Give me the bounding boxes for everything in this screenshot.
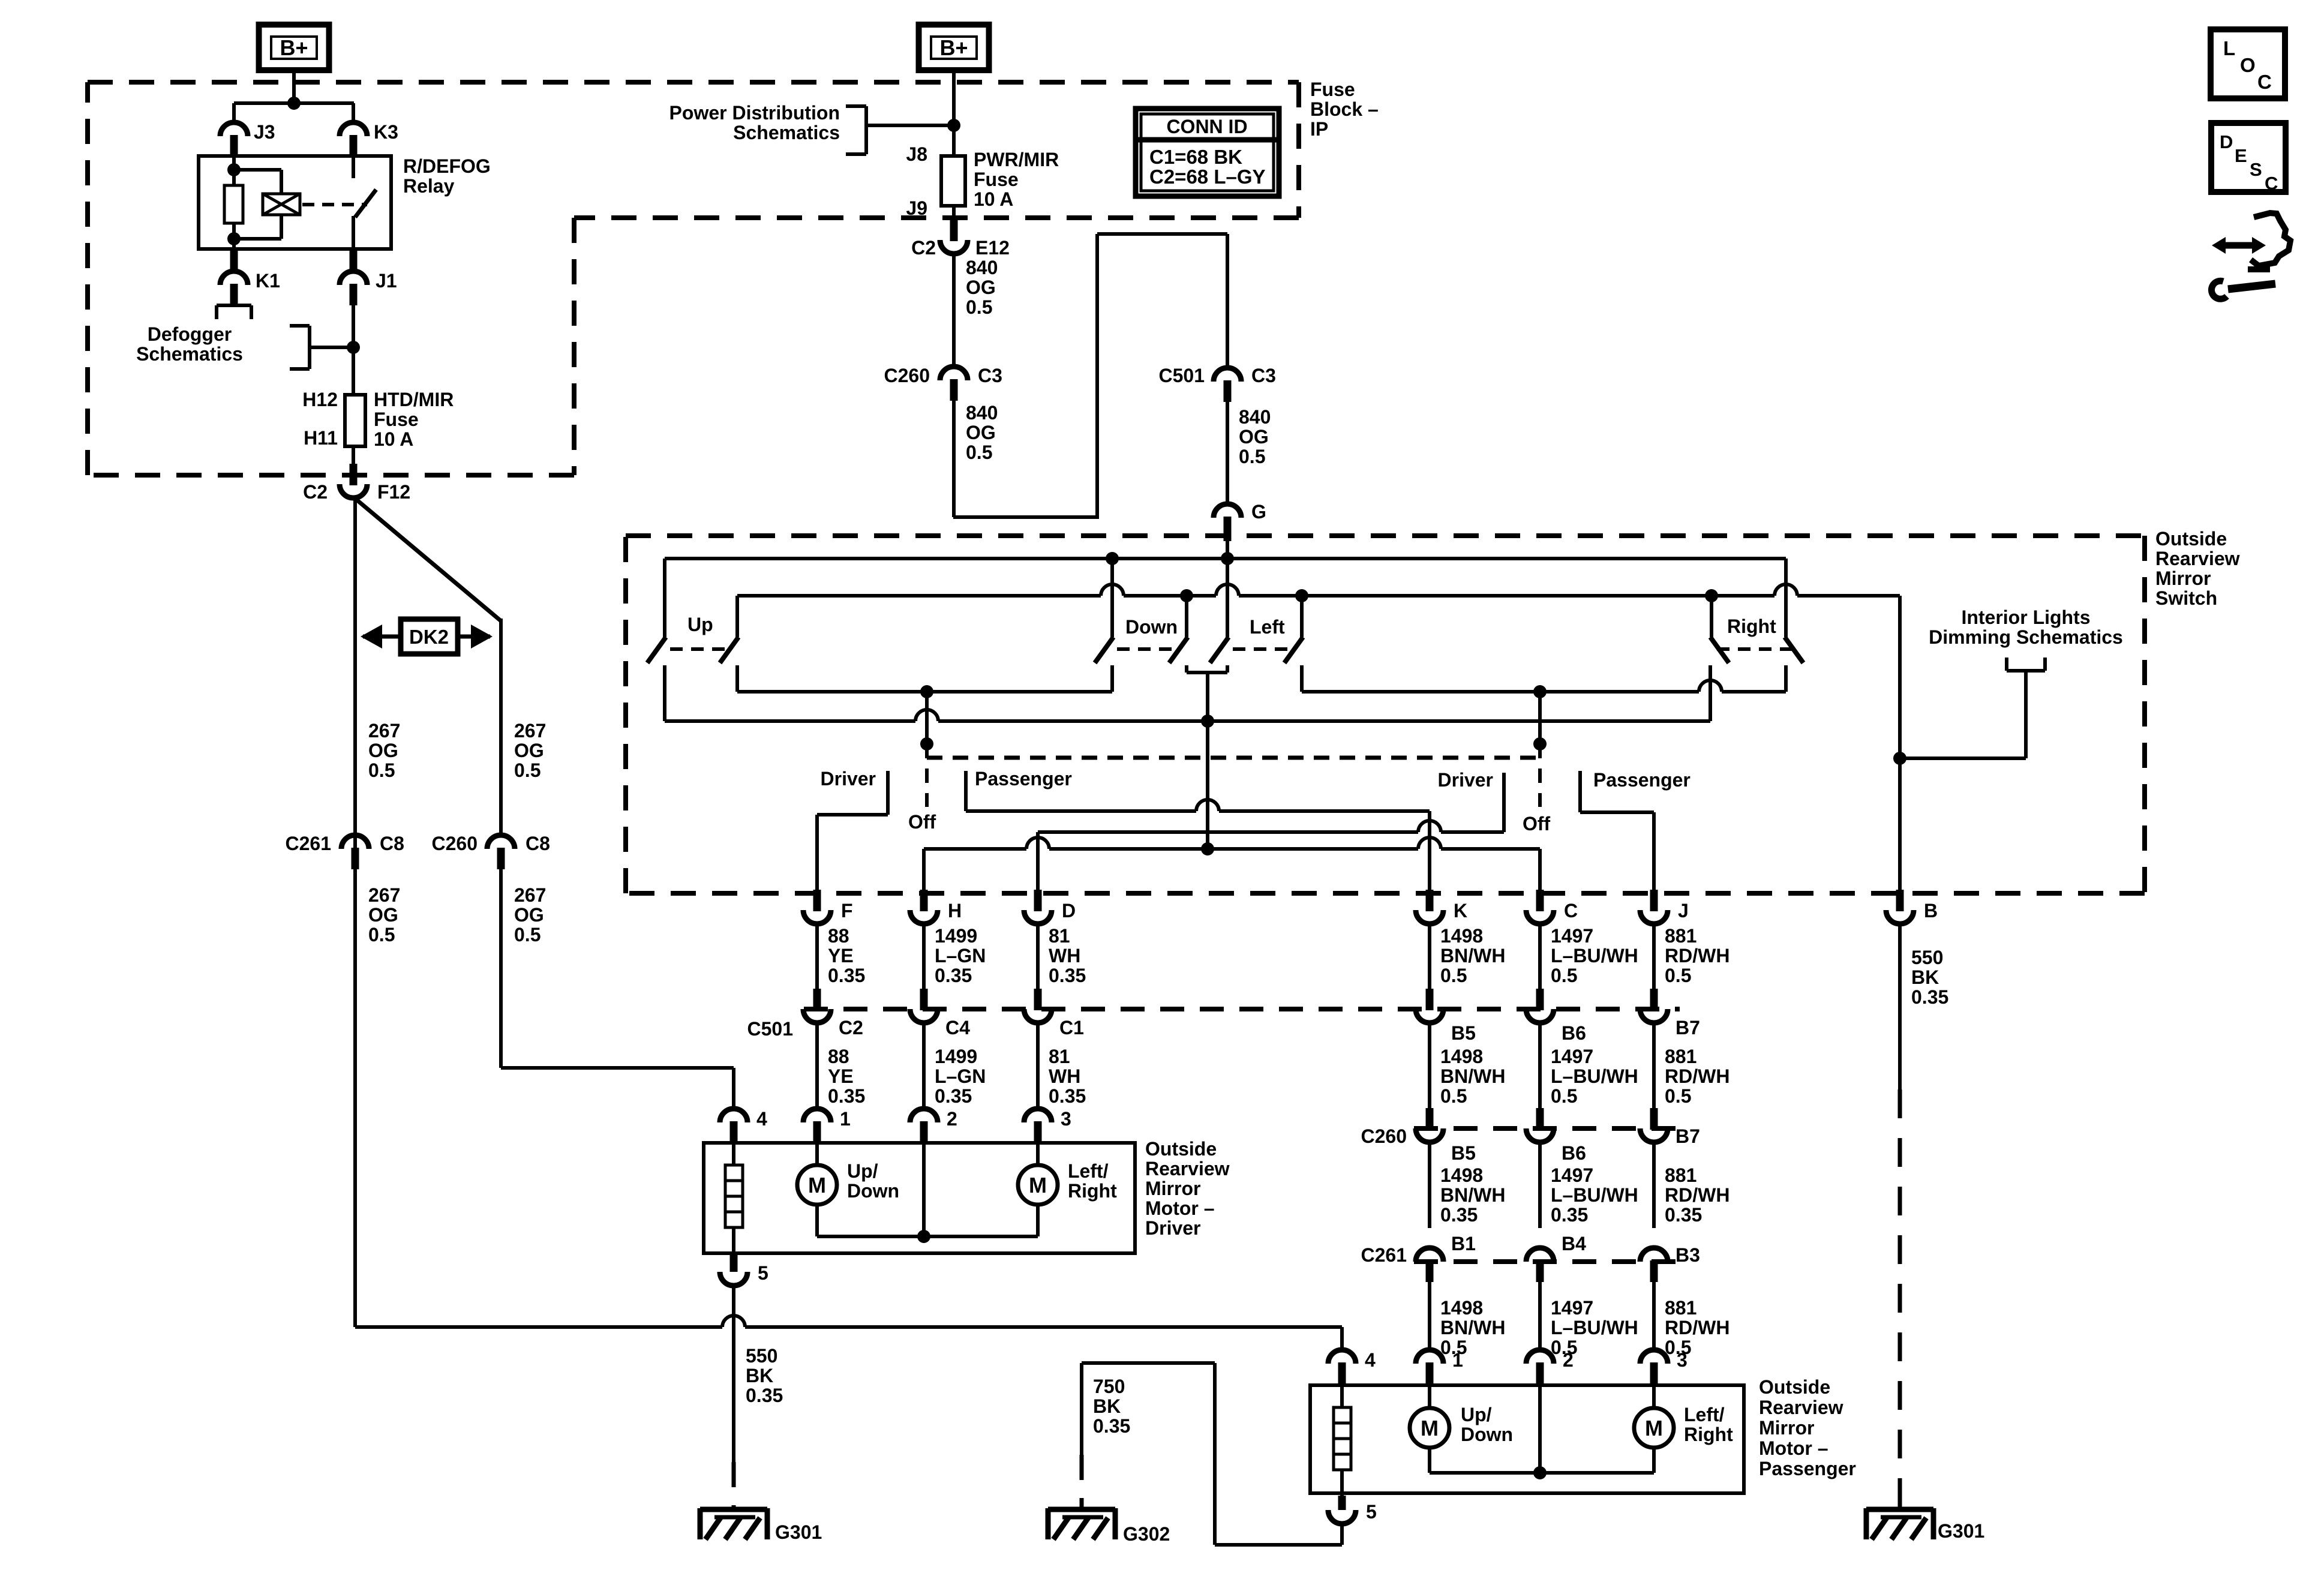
svg-text:1498: 1498: [1440, 1046, 1483, 1067]
svg-text:WH: WH: [1049, 1065, 1080, 1087]
svg-text:Switch: Switch: [2155, 587, 2217, 609]
svg-text:C: C: [2257, 71, 2272, 93]
svg-text:3: 3: [1061, 1108, 1071, 1130]
svg-text:S: S: [2250, 159, 2262, 180]
svg-text:M: M: [808, 1173, 826, 1197]
svg-text:Driver: Driver: [821, 768, 876, 789]
svg-text:H11: H11: [304, 427, 338, 449]
svg-text:B1: B1: [1451, 1233, 1476, 1254]
svg-text:RD/WH: RD/WH: [1665, 1065, 1730, 1087]
svg-text:R/DEFOG: R/DEFOG: [403, 155, 491, 177]
svg-text:C8: C8: [380, 833, 404, 854]
svg-text:Down: Down: [847, 1180, 899, 1202]
svg-text:550: 550: [746, 1345, 777, 1367]
svg-text:0.5: 0.5: [1551, 1085, 1577, 1107]
svg-text:B3: B3: [1676, 1244, 1700, 1266]
svg-text:Down: Down: [1461, 1424, 1513, 1445]
svg-text:M: M: [1029, 1173, 1047, 1197]
svg-text:88: 88: [828, 925, 849, 947]
svg-text:E: E: [2235, 145, 2247, 166]
svg-text:Rearview: Rearview: [1145, 1158, 1230, 1179]
svg-text:Outside: Outside: [1145, 1138, 1217, 1160]
svg-text:Left/: Left/: [1684, 1404, 1725, 1425]
svg-text:YE: YE: [828, 1065, 854, 1087]
svg-text:Passenger: Passenger: [1759, 1458, 1856, 1479]
svg-text:L: L: [2223, 37, 2235, 59]
svg-text:C8: C8: [526, 833, 550, 854]
svg-text:M: M: [1421, 1416, 1439, 1440]
svg-text:C260: C260: [432, 833, 478, 854]
svg-text:K1: K1: [256, 270, 280, 292]
svg-text:Right: Right: [1684, 1424, 1733, 1445]
svg-text:Rearview: Rearview: [1759, 1397, 1843, 1418]
svg-text:750: 750: [1093, 1376, 1125, 1397]
svg-text:0.35: 0.35: [1665, 1204, 1702, 1226]
svg-text:Driver: Driver: [1438, 769, 1494, 791]
svg-text:81: 81: [1049, 1046, 1070, 1067]
svg-text:Driver: Driver: [1145, 1217, 1201, 1239]
svg-text:1: 1: [1452, 1349, 1463, 1371]
svg-text:L–GN: L–GN: [935, 1065, 986, 1087]
svg-text:H12: H12: [302, 389, 338, 410]
svg-text:O: O: [2240, 54, 2256, 76]
svg-text:L–BU/WH: L–BU/WH: [1551, 1184, 1638, 1206]
svg-text:B+: B+: [939, 35, 968, 60]
svg-text:C2: C2: [303, 481, 328, 503]
svg-text:0.35: 0.35: [935, 1085, 972, 1107]
svg-text:C260: C260: [884, 365, 930, 386]
svg-text:4: 4: [1365, 1349, 1376, 1371]
svg-text:K3: K3: [374, 121, 398, 143]
svg-text:0.35: 0.35: [935, 965, 972, 986]
svg-text:0.5: 0.5: [1665, 965, 1691, 986]
svg-text:881: 881: [1665, 1164, 1697, 1186]
svg-text:0.5: 0.5: [966, 296, 992, 318]
svg-text:0.35: 0.35: [1049, 1085, 1086, 1107]
svg-text:Schematics: Schematics: [733, 122, 840, 143]
svg-text:G: G: [1251, 501, 1266, 523]
svg-text:4: 4: [756, 1108, 767, 1130]
svg-text:OG: OG: [514, 904, 544, 926]
svg-text:3: 3: [1677, 1349, 1688, 1371]
svg-text:267: 267: [514, 720, 546, 742]
svg-text:L–BU/WH: L–BU/WH: [1551, 1065, 1638, 1087]
svg-text:B4: B4: [1562, 1233, 1586, 1254]
svg-text:PWR/MIR: PWR/MIR: [974, 149, 1059, 170]
svg-text:J: J: [1678, 900, 1689, 921]
svg-text:IP: IP: [1310, 118, 1328, 140]
svg-text:B6: B6: [1562, 1142, 1586, 1164]
svg-text:C2=68 L–GY: C2=68 L–GY: [1149, 166, 1266, 188]
svg-text:Motor –: Motor –: [1145, 1197, 1215, 1219]
svg-text:Rearview: Rearview: [2155, 548, 2240, 569]
svg-text:RD/WH: RD/WH: [1665, 1317, 1730, 1338]
svg-text:5: 5: [758, 1262, 768, 1284]
svg-text:Mirror: Mirror: [1759, 1417, 1814, 1439]
svg-text:1497: 1497: [1551, 1164, 1593, 1186]
svg-text:J3: J3: [254, 121, 275, 143]
svg-text:0.35: 0.35: [1551, 1204, 1588, 1226]
svg-text:0.35: 0.35: [828, 965, 865, 986]
svg-text:WH: WH: [1049, 945, 1080, 966]
svg-text:1499: 1499: [935, 1046, 977, 1067]
svg-text:C501: C501: [1159, 365, 1205, 386]
svg-text:Up/: Up/: [847, 1160, 878, 1182]
svg-text:1499: 1499: [935, 925, 977, 947]
svg-text:Motor –: Motor –: [1759, 1437, 1828, 1459]
svg-text:C261: C261: [1361, 1244, 1407, 1266]
svg-text:0.5: 0.5: [514, 924, 541, 945]
svg-text:J8: J8: [906, 143, 927, 165]
svg-text:E12: E12: [975, 237, 1010, 259]
svg-text:Fuse: Fuse: [1310, 79, 1355, 100]
svg-text:Relay: Relay: [403, 175, 455, 197]
svg-text:0.35: 0.35: [1911, 986, 1948, 1008]
svg-text:G301: G301: [1938, 1520, 1984, 1542]
svg-text:Outside: Outside: [1759, 1376, 1830, 1398]
svg-text:267: 267: [368, 720, 400, 742]
svg-text:L–BU/WH: L–BU/WH: [1551, 1317, 1638, 1338]
svg-text:C3: C3: [1251, 365, 1276, 386]
svg-text:0.5: 0.5: [1239, 446, 1265, 467]
svg-text:B7: B7: [1676, 1125, 1700, 1147]
svg-text:881: 881: [1665, 925, 1697, 947]
svg-text:0.35: 0.35: [746, 1385, 783, 1406]
svg-text:Left/: Left/: [1068, 1160, 1109, 1182]
svg-text:Up: Up: [687, 614, 713, 635]
svg-text:DK2: DK2: [409, 626, 449, 648]
svg-text:D: D: [2220, 131, 2233, 152]
svg-text:2: 2: [1563, 1349, 1574, 1371]
svg-text:881: 881: [1665, 1046, 1697, 1067]
svg-text:BK: BK: [746, 1365, 773, 1386]
svg-text:OG: OG: [368, 740, 398, 761]
svg-text:RD/WH: RD/WH: [1665, 945, 1730, 966]
svg-text:1497: 1497: [1551, 1297, 1593, 1319]
svg-text:0.35: 0.35: [828, 1085, 865, 1107]
svg-text:Off: Off: [908, 811, 936, 833]
svg-text:OG: OG: [514, 740, 544, 761]
svg-text:81: 81: [1049, 925, 1070, 947]
svg-text:YE: YE: [828, 945, 854, 966]
svg-text:881: 881: [1665, 1297, 1697, 1319]
svg-text:D: D: [1062, 900, 1076, 921]
svg-text:H: H: [948, 900, 962, 921]
svg-text:10 A: 10 A: [374, 428, 413, 450]
svg-text:0.35: 0.35: [1093, 1415, 1130, 1437]
svg-text:0.35: 0.35: [1049, 965, 1086, 986]
svg-text:Power Distribution: Power Distribution: [669, 102, 840, 124]
svg-text:J1: J1: [376, 270, 397, 292]
svg-text:Block –: Block –: [1310, 98, 1379, 120]
svg-text:C261: C261: [286, 833, 332, 854]
svg-text:RD/WH: RD/WH: [1665, 1184, 1730, 1206]
svg-text:Passenger: Passenger: [1593, 769, 1691, 791]
svg-text:HTD/MIR: HTD/MIR: [374, 389, 454, 410]
svg-text:Interior Lights: Interior Lights: [1961, 607, 2090, 628]
svg-text:Outside: Outside: [2155, 528, 2227, 550]
svg-text:B7: B7: [1676, 1017, 1700, 1038]
svg-text:840: 840: [966, 257, 998, 278]
svg-text:BK: BK: [1093, 1395, 1121, 1417]
svg-text:C3: C3: [978, 365, 1002, 386]
svg-text:OG: OG: [1239, 426, 1269, 448]
svg-text:Off: Off: [1523, 813, 1551, 834]
svg-text:OG: OG: [368, 904, 398, 926]
svg-text:0.5: 0.5: [1665, 1085, 1691, 1107]
svg-text:L–GN: L–GN: [935, 945, 986, 966]
svg-text:G302: G302: [1123, 1523, 1170, 1545]
svg-text:Down: Down: [1125, 616, 1178, 638]
svg-text:G301: G301: [775, 1521, 822, 1543]
svg-text:1498: 1498: [1440, 925, 1483, 947]
svg-text:BN/WH: BN/WH: [1440, 945, 1505, 966]
svg-text:1497: 1497: [1551, 1046, 1593, 1067]
svg-text:Schematics: Schematics: [136, 343, 243, 365]
svg-text:C1: C1: [1059, 1017, 1084, 1038]
svg-text:1498: 1498: [1440, 1297, 1483, 1319]
svg-text:0.35: 0.35: [1440, 1204, 1478, 1226]
svg-text:1498: 1498: [1440, 1164, 1483, 1186]
svg-text:Mirror: Mirror: [2155, 568, 2211, 589]
svg-text:F: F: [841, 900, 853, 921]
svg-text:0.5: 0.5: [514, 760, 541, 781]
svg-text:C2: C2: [839, 1017, 863, 1038]
svg-text:OG: OG: [966, 422, 996, 443]
svg-text:88: 88: [828, 1046, 849, 1067]
svg-text:0.5: 0.5: [966, 442, 992, 463]
svg-text:CONN ID: CONN ID: [1166, 116, 1247, 137]
svg-text:M: M: [1645, 1416, 1663, 1440]
svg-text:5: 5: [1366, 1501, 1377, 1523]
svg-text:0.5: 0.5: [1440, 965, 1467, 986]
svg-text:Dimming Schematics: Dimming Schematics: [1929, 626, 2123, 648]
svg-text:0.5: 0.5: [1551, 965, 1577, 986]
svg-text:B+: B+: [280, 35, 308, 60]
svg-text:Left: Left: [1250, 616, 1285, 638]
svg-text:1497: 1497: [1551, 925, 1593, 947]
svg-text:C260: C260: [1361, 1125, 1407, 1147]
svg-text:Up/: Up/: [1461, 1404, 1492, 1425]
svg-text:BK: BK: [1911, 966, 1939, 988]
svg-text:267: 267: [514, 884, 546, 906]
svg-text:K: K: [1454, 900, 1467, 921]
svg-text:C4: C4: [945, 1017, 970, 1038]
svg-text:C501: C501: [747, 1018, 794, 1040]
svg-text:0.5: 0.5: [368, 760, 395, 781]
svg-text:10 A: 10 A: [974, 188, 1013, 210]
svg-text:B: B: [1924, 900, 1938, 921]
svg-text:Right: Right: [1068, 1180, 1117, 1202]
svg-text:Right: Right: [1727, 616, 1776, 637]
svg-text:BN/WH: BN/WH: [1440, 1184, 1505, 1206]
svg-text:840: 840: [1239, 406, 1271, 428]
svg-text:L–BU/WH: L–BU/WH: [1551, 945, 1638, 966]
svg-text:BN/WH: BN/WH: [1440, 1065, 1505, 1087]
svg-text:OG: OG: [966, 277, 996, 298]
svg-text:Defogger: Defogger: [148, 323, 232, 345]
svg-text:Fuse: Fuse: [974, 169, 1019, 190]
svg-text:Mirror: Mirror: [1145, 1178, 1200, 1199]
svg-text:C: C: [2265, 173, 2278, 194]
svg-text:C1=68 BK: C1=68 BK: [1149, 146, 1242, 168]
svg-text:B5: B5: [1451, 1142, 1476, 1164]
svg-text:0.5: 0.5: [1440, 1085, 1467, 1107]
svg-text:2: 2: [947, 1108, 957, 1130]
svg-text:1: 1: [840, 1108, 851, 1130]
svg-text:267: 267: [368, 884, 400, 906]
svg-text:Passenger: Passenger: [975, 768, 1072, 789]
svg-text:F12: F12: [377, 481, 410, 503]
svg-text:C: C: [1564, 900, 1578, 921]
svg-text:B6: B6: [1562, 1022, 1586, 1044]
svg-text:Fuse: Fuse: [374, 409, 419, 430]
svg-text:840: 840: [966, 402, 998, 424]
svg-text:B5: B5: [1451, 1022, 1476, 1044]
svg-text:BN/WH: BN/WH: [1440, 1317, 1505, 1338]
svg-text:C2: C2: [911, 237, 936, 259]
svg-text:550: 550: [1911, 947, 1943, 968]
svg-text:0.5: 0.5: [368, 924, 395, 945]
